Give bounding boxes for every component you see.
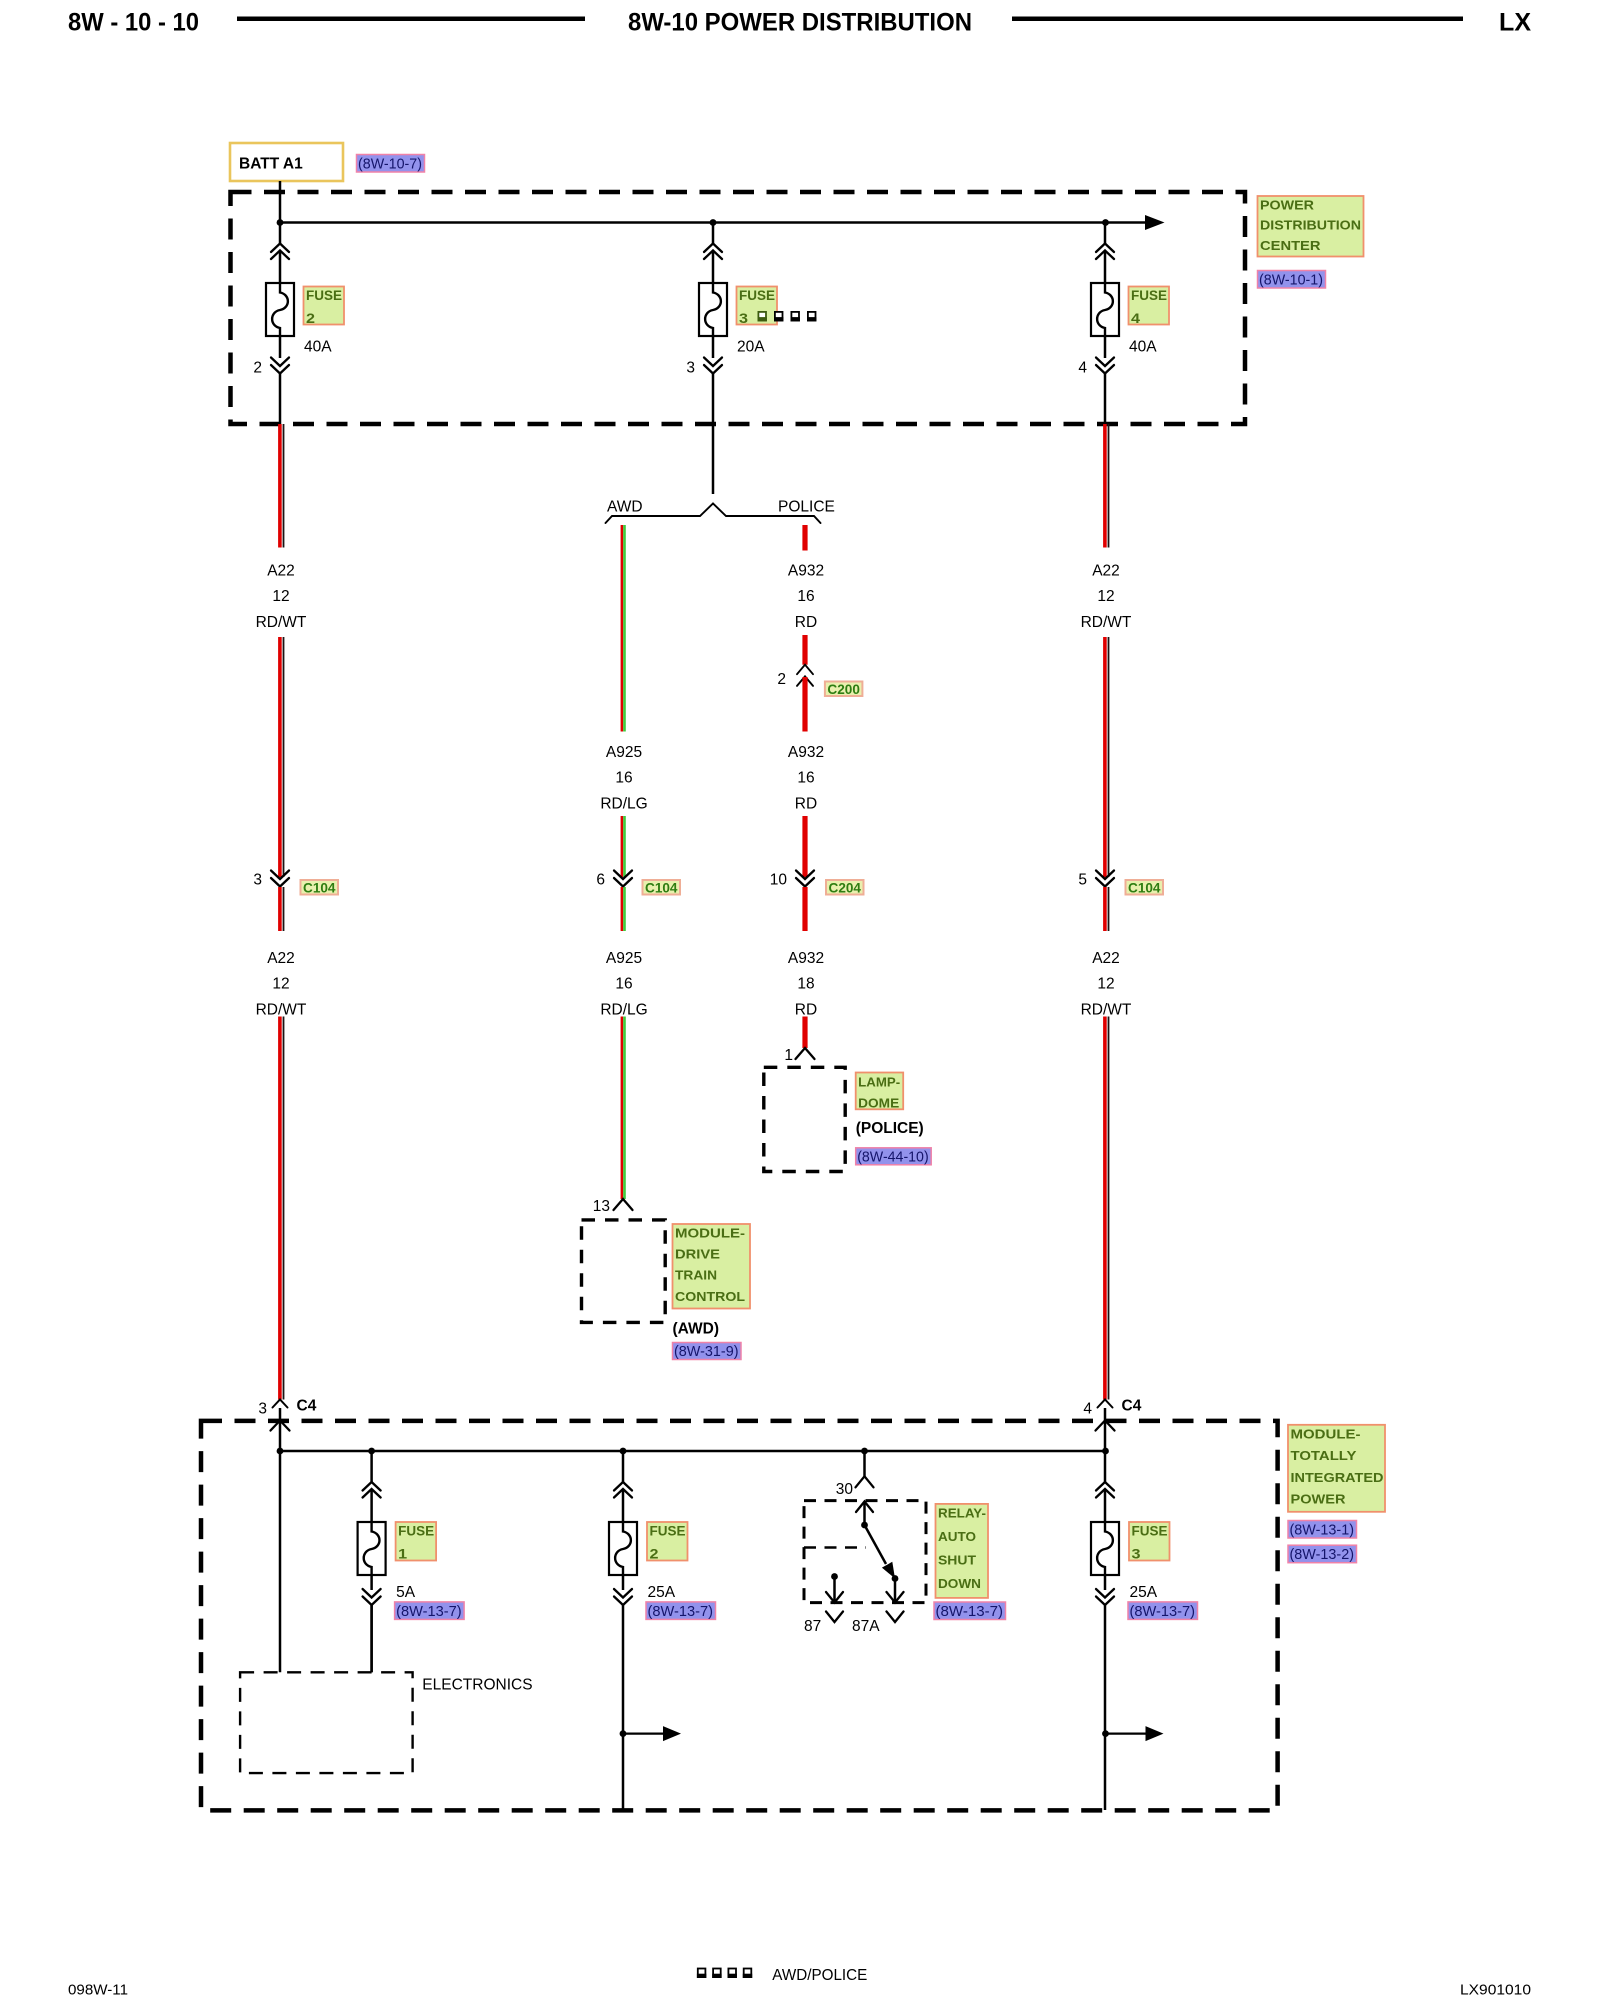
svg-text:(8W-10-7): (8W-10-7)	[358, 156, 422, 173]
svg-text:(8W-44-10): (8W-44-10)	[857, 1148, 929, 1165]
svg-text:AWD/POLICE: AWD/POLICE	[772, 1967, 867, 1984]
svg-text:3: 3	[258, 1401, 267, 1418]
svg-text:4: 4	[1078, 360, 1087, 377]
svg-text:RD/WT: RD/WT	[256, 614, 307, 631]
svg-text:INTEGRATED: INTEGRATED	[1291, 1470, 1384, 1485]
svg-text:40A: 40A	[304, 339, 332, 356]
svg-text:POWER: POWER	[1291, 1492, 1347, 1507]
svg-text:A22: A22	[1092, 563, 1120, 580]
svg-text:TRAIN: TRAIN	[675, 1268, 717, 1283]
svg-text:C204: C204	[829, 880, 862, 895]
svg-text:2: 2	[650, 1547, 659, 1562]
svg-text:A932: A932	[788, 950, 824, 967]
svg-text:C4: C4	[1122, 1398, 1142, 1415]
svg-text:RD/LG: RD/LG	[600, 795, 647, 812]
svg-text:A932: A932	[788, 563, 824, 580]
svg-text:AWD: AWD	[607, 499, 643, 516]
svg-text:RD/WT: RD/WT	[256, 1001, 307, 1018]
svg-text:C4: C4	[297, 1398, 317, 1415]
svg-text:2: 2	[777, 671, 786, 688]
svg-text:3: 3	[253, 872, 262, 889]
svg-text:FUSE: FUSE	[650, 1524, 686, 1539]
svg-text:16: 16	[615, 770, 632, 787]
svg-text:C104: C104	[645, 880, 678, 895]
svg-text:AUTO: AUTO	[938, 1529, 976, 1544]
svg-text:CONTROL: CONTROL	[675, 1289, 745, 1304]
svg-text:25A: 25A	[1130, 1584, 1158, 1601]
svg-text:16: 16	[615, 976, 632, 993]
svg-text:5: 5	[1078, 872, 1087, 889]
svg-text:FUSE: FUSE	[306, 288, 342, 303]
svg-text:A22: A22	[267, 950, 295, 967]
svg-text:12: 12	[1097, 976, 1114, 993]
svg-text:2: 2	[253, 360, 262, 377]
svg-text:8W-10 POWER DISTRIBUTION: 8W-10 POWER DISTRIBUTION	[628, 9, 972, 37]
svg-text:RD: RD	[795, 614, 817, 631]
svg-text:RD: RD	[795, 1001, 817, 1018]
svg-text:RD/WT: RD/WT	[1081, 614, 1132, 631]
svg-text:(8W-13-7): (8W-13-7)	[936, 1603, 1004, 1620]
svg-text:3: 3	[686, 360, 695, 377]
svg-text:LX901010: LX901010	[1460, 1982, 1531, 1999]
svg-text:A22: A22	[1092, 950, 1120, 967]
svg-text:10: 10	[770, 872, 788, 889]
svg-text:POLICE: POLICE	[778, 499, 835, 516]
svg-text:40A: 40A	[1129, 339, 1157, 356]
svg-text:12: 12	[1097, 588, 1114, 605]
svg-text:87A: 87A	[852, 1618, 880, 1635]
svg-text:(POLICE): (POLICE)	[856, 1120, 924, 1137]
svg-text:ELECTRONICS: ELECTRONICS	[422, 1677, 532, 1694]
svg-text:(8W-13-2): (8W-13-2)	[1290, 1546, 1355, 1563]
svg-text:MODULE-: MODULE-	[675, 1226, 745, 1241]
svg-text:6: 6	[596, 872, 605, 889]
svg-text:DOWN: DOWN	[938, 1576, 981, 1591]
svg-text:MODULE-: MODULE-	[1291, 1427, 1361, 1442]
svg-text:RD/LG: RD/LG	[600, 1001, 647, 1018]
svg-text:(AWD): (AWD)	[673, 1321, 720, 1338]
svg-text:LX: LX	[1499, 9, 1531, 37]
svg-text:4: 4	[1083, 1401, 1092, 1418]
svg-text:8W - 10 - 10: 8W - 10 - 10	[68, 9, 199, 37]
svg-text:SHUT: SHUT	[938, 1553, 976, 1568]
svg-text:1: 1	[784, 1047, 793, 1064]
svg-text:RD: RD	[795, 795, 817, 812]
svg-text:18: 18	[797, 976, 814, 993]
svg-text:13: 13	[593, 1198, 610, 1215]
svg-text:25A: 25A	[648, 1584, 676, 1601]
svg-text:098W-11: 098W-11	[68, 1982, 128, 1999]
svg-text:TOTALLY: TOTALLY	[1291, 1448, 1357, 1463]
svg-text:16: 16	[797, 770, 814, 787]
svg-text:BATT A1: BATT A1	[239, 156, 303, 173]
svg-text:87: 87	[804, 1618, 821, 1635]
svg-text:DRIVE: DRIVE	[675, 1247, 720, 1262]
svg-text:(8W-13-1): (8W-13-1)	[1290, 1522, 1355, 1539]
svg-text:30: 30	[836, 1481, 854, 1498]
svg-text:(8W-10-1): (8W-10-1)	[1259, 272, 1323, 289]
svg-text:C104: C104	[303, 880, 336, 895]
svg-text:20A: 20A	[737, 339, 765, 356]
svg-text:LAMP-: LAMP-	[858, 1075, 900, 1090]
svg-text:POWER: POWER	[1260, 198, 1315, 213]
svg-text:12: 12	[272, 588, 289, 605]
svg-text:RELAY-: RELAY-	[938, 1506, 986, 1521]
svg-text:DISTRIBUTION: DISTRIBUTION	[1260, 218, 1361, 233]
svg-text:(8W-13-7): (8W-13-7)	[396, 1603, 462, 1620]
svg-text:CENTER: CENTER	[1260, 238, 1321, 253]
svg-text:A925: A925	[606, 744, 642, 761]
svg-text:3: 3	[739, 311, 749, 326]
svg-text:FUSE: FUSE	[739, 288, 775, 303]
svg-text:3: 3	[1132, 1547, 1142, 1562]
svg-text:A925: A925	[606, 950, 642, 967]
svg-text:(8W-13-7): (8W-13-7)	[648, 1603, 714, 1620]
svg-text:(8W-13-7): (8W-13-7)	[1130, 1603, 1196, 1620]
svg-text:RD/WT: RD/WT	[1081, 1001, 1132, 1018]
svg-text:FUSE: FUSE	[1131, 288, 1167, 303]
svg-text:16: 16	[797, 588, 814, 605]
svg-text:2: 2	[306, 311, 315, 326]
svg-text:A22: A22	[267, 563, 295, 580]
svg-text:4: 4	[1131, 311, 1141, 326]
svg-text:FUSE: FUSE	[1132, 1524, 1168, 1539]
svg-text:12: 12	[272, 976, 289, 993]
svg-text:5A: 5A	[396, 1584, 416, 1601]
svg-text:FUSE: FUSE	[398, 1524, 434, 1539]
svg-text:C200: C200	[827, 682, 860, 697]
svg-text:A932: A932	[788, 744, 824, 761]
svg-text:C104: C104	[1128, 880, 1161, 895]
svg-text:(8W-31-9): (8W-31-9)	[674, 1343, 739, 1360]
svg-text:1: 1	[398, 1547, 408, 1562]
svg-text:DOME: DOME	[858, 1096, 899, 1111]
